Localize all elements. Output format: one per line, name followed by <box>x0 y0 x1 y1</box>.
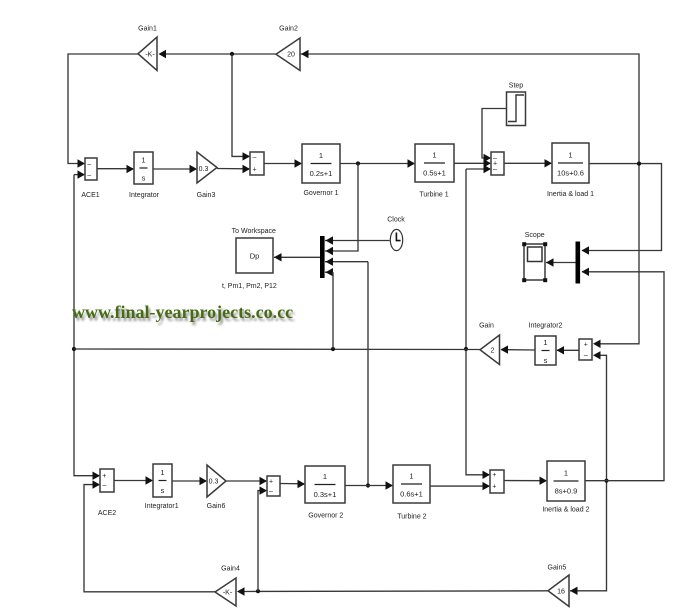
arrowhead into Sum4 minus <box>593 351 601 359</box>
junction Governor 1 output <box>356 161 360 165</box>
svg-text:–: – <box>87 161 91 168</box>
svg-text:1: 1 <box>568 151 572 160</box>
svg-text:ACE1: ACE1 <box>81 192 99 199</box>
scope Scope (selected) <box>522 242 547 282</box>
mux Mux (4 inputs, to workspace) <box>320 236 325 278</box>
wire droop feedback down to Sum2 minus input <box>232 54 249 156</box>
svg-text:Integrator2: Integrator2 <box>529 323 563 330</box>
block Integrator2 (1/s) <box>535 336 556 365</box>
Step <box>507 92 526 126</box>
arrowhead into ACE1 input 1 <box>78 159 86 167</box>
svg-text:Turbine 1: Turbine 1 <box>419 192 448 199</box>
arrowhead into sum + <box>593 340 601 348</box>
svg-text:Integrator1: Integrator1 <box>145 503 179 510</box>
svg-text:8s+0.9: 8s+0.9 <box>555 487 578 496</box>
arrowhead into Mux input 2 <box>326 247 334 255</box>
svg-text:0.6s+1: 0.6s+1 <box>400 490 423 499</box>
wire Sum3 out to Inertia and load 1 <box>504 162 551 164</box>
wire tie-line P12 vertical left x74 ACE1 to ACE2 <box>74 175 99 476</box>
arrowhead into Inertia 2 <box>540 477 548 485</box>
svg-text:-K-: -K- <box>223 590 233 597</box>
sum Sum area2 (droop) <box>267 476 280 496</box>
arrowhead into Sum5 minus <box>260 486 268 494</box>
sum ACE2 <box>100 469 114 492</box>
svg-text:ACE2: ACE2 <box>98 510 116 517</box>
svg-text:–: – <box>87 172 91 179</box>
arrowhead into Sum5 plus <box>260 477 268 485</box>
junction tie-line mid <box>464 347 468 351</box>
arrowhead into Gain3 <box>190 165 198 173</box>
svg-text:1: 1 <box>543 338 547 347</box>
svg-text:–: – <box>584 353 588 360</box>
gain Gain6 (0.3) <box>207 465 226 497</box>
wire Delta-f2 to Sum4 minus and down to Gain5 <box>570 355 607 591</box>
wire Gain output tie-line long horizontal <box>74 348 480 351</box>
svg-text:+: + <box>252 166 256 173</box>
svg-text:Gain5: Gain5 <box>548 565 567 572</box>
arrowhead into Sum3 bottom <box>484 165 492 173</box>
wire Integrator out to Gain3 <box>153 168 196 170</box>
svg-text:Dp: Dp <box>250 252 260 261</box>
arrowhead into Inertia 1 <box>545 159 553 167</box>
svg-text:1: 1 <box>323 472 327 481</box>
wire ACE2 out to Integrator1 <box>114 480 152 482</box>
svg-text:Inertia & load 1: Inertia & load 1 <box>547 191 594 198</box>
svg-text:1: 1 <box>319 151 323 160</box>
wire vertical x368 down to Governor2 output <box>367 262 369 486</box>
wire freq feedback up to Sum5 minus <box>258 491 266 592</box>
svg-text:1: 1 <box>432 151 436 160</box>
svg-text:Turbine 2: Turbine 2 <box>397 514 426 521</box>
svg-text:Gain4: Gain4 <box>221 566 240 573</box>
arrowhead into Gain2 input <box>301 50 309 58</box>
arrowhead into Governor 2 <box>298 480 306 488</box>
svg-text:0.3s+1: 0.3s+1 <box>314 490 337 499</box>
svg-text:+: + <box>584 341 588 348</box>
arrowhead into Gain6 <box>200 477 208 485</box>
svg-text:+: + <box>269 478 273 485</box>
svg-text:+: + <box>492 472 496 479</box>
block Inertia & load 2 <box>547 461 585 501</box>
wire vertical x333 to tie-line <box>332 272 334 349</box>
svg-text:s: s <box>161 486 165 495</box>
arrowhead into Sum2 plus <box>243 165 251 173</box>
arrowhead into Scope mux input 1 <box>582 246 590 254</box>
junction Inertia2 output line <box>604 479 608 483</box>
gain Gain (2, tie-line) <box>480 335 500 365</box>
gain Gain5 (16) <box>548 575 569 607</box>
arrowhead into Integrator <box>127 165 135 173</box>
wire Integrator2 out to Gain <box>501 349 535 351</box>
svg-text:Governor 1: Governor 1 <box>303 190 338 197</box>
wire Sum5 out to Governor 2 <box>280 483 304 485</box>
wire Step output to Sum3 top input <box>482 109 506 159</box>
svg-text:0.5s+1: 0.5s+1 <box>423 169 446 178</box>
svg-text:Gain6: Gain6 <box>207 503 226 510</box>
svg-text:Gain2: Gain2 <box>279 26 298 33</box>
svg-text:Scope: Scope <box>525 232 545 239</box>
arrowhead into Sum2 minus <box>243 152 251 160</box>
svg-text:s: s <box>544 356 548 365</box>
arrowhead into Gain5 input <box>570 587 578 595</box>
To Workspace Dp <box>236 238 273 273</box>
wire Inertia2 out to Scope mux input 2 <box>582 272 664 481</box>
arrowhead into Sum3 middle <box>484 159 492 167</box>
wire Inertia1 out to Scope mux input 1 <box>582 164 662 251</box>
sum Sum area2 load <box>490 470 504 493</box>
junction tie-line at watermark line <box>72 347 76 351</box>
block Governor 1 <box>302 144 340 183</box>
svg-text:–: – <box>102 482 106 489</box>
arrowhead into Gain1 input <box>159 50 167 58</box>
svg-text:Inertia & load 2: Inertia & load 2 <box>542 507 589 514</box>
wire Delta-f1 feedback: Inertia1 out top line to Gain2 and Sum4 + <box>300 54 639 344</box>
arrowhead into ACE2 plus input <box>93 472 101 480</box>
arrowhead into Scope mux input 2 <box>582 268 590 276</box>
junction Inertia1 output <box>637 162 641 166</box>
sum Sum tie-line (inputs on right) <box>579 339 592 360</box>
arrowhead into Mux input 3 <box>326 258 334 266</box>
svg-text:1: 1 <box>564 469 568 478</box>
arrowhead into Sum6 bottom <box>483 482 491 490</box>
block Inertia & load 1 <box>552 143 589 183</box>
svg-text:1: 1 <box>160 468 164 477</box>
svg-text:–: – <box>493 166 497 173</box>
arrowhead into Turbine 2 <box>386 481 394 489</box>
clock Clock <box>390 229 402 250</box>
block Governor 2 <box>305 466 345 503</box>
wire Clock to Mux input 1 <box>325 240 390 242</box>
arrowhead into Mux input 1 <box>326 236 334 244</box>
svg-text:2: 2 <box>491 348 495 355</box>
svg-text:0.3: 0.3 <box>199 166 209 173</box>
junction on Gain2-Gain1 wire <box>230 52 234 56</box>
wire Scope mux output to Scope <box>546 262 576 264</box>
svg-text:20: 20 <box>287 52 295 59</box>
wire Sum4 out to Integrator2 <box>557 349 579 351</box>
junction tie-line to mux tap <box>331 347 335 351</box>
wire Governor 2 out to Turbine 2 <box>345 485 392 487</box>
wire Gain3 out to Sum2 plus <box>217 168 249 170</box>
wire Sum2 out to Governor 1 <box>264 163 301 165</box>
watermark www.final-yearprojects.co.cc <box>72 302 293 323</box>
wire into ACE1 second input <box>74 174 84 176</box>
block Turbine 2 <box>393 465 430 503</box>
svg-text:Governor 2: Governor 2 <box>308 513 343 520</box>
svg-text:To Workspace: To Workspace <box>232 228 276 235</box>
gain Gain1 (-K-) <box>138 37 157 71</box>
wire ACE1 out to Integrator <box>97 168 133 170</box>
svg-text:Gain3: Gain3 <box>197 192 216 199</box>
svg-text:0.3: 0.3 <box>209 479 219 486</box>
block Integrator (1/s) <box>134 152 153 184</box>
arrowhead into Integrator1 <box>146 476 154 484</box>
wire Mux output to To Workspace <box>274 256 320 258</box>
svg-text:1: 1 <box>409 472 413 481</box>
arrowhead into Governor 1 <box>295 159 303 167</box>
wire Gain4 output to ACE2 minus input <box>84 485 215 592</box>
sum Sum area1 load (3 inputs) <box>491 152 504 175</box>
arrowhead into Turbine 1 <box>408 159 416 167</box>
svg-text:1: 1 <box>141 156 145 165</box>
gain Gain4 (-K-) <box>215 578 236 606</box>
arrowhead into Scope <box>546 258 554 266</box>
gain Gain3 (0.3) <box>197 152 217 183</box>
svg-text:Clock: Clock <box>387 217 405 224</box>
wire Mux input 4 from tie-line <box>325 271 333 273</box>
arrowhead into ACE2 minus <box>93 480 101 488</box>
arrowhead into Integrator2 <box>557 346 565 354</box>
wire Turbine 2 out to Sum6 bottom <box>430 485 489 487</box>
arrowhead into ACE1 input 2 <box>78 170 86 178</box>
block Integrator1 (1/s) <box>153 464 172 497</box>
svg-text:–: – <box>269 488 273 495</box>
wire Governor1 tap down to Mux input 2 <box>325 164 358 252</box>
svg-text:16: 16 <box>557 589 565 596</box>
wire Mux input 3 from Governor2 tap <box>325 261 368 263</box>
arrowhead into Gain4 input <box>237 587 245 595</box>
junction Governor 2 output <box>366 483 370 487</box>
wire Gain6 out to Sum5 plus <box>226 480 266 482</box>
junction on Gain5-Gain4 wire <box>256 589 260 593</box>
svg-text:-K-: -K- <box>145 52 155 59</box>
wire tie-line into Sum3 bottom <box>466 168 490 170</box>
svg-text:–: – <box>253 154 257 161</box>
svg-text:t, Pm1, Pm2, P12: t, Pm1, Pm2, P12 <box>222 283 277 290</box>
svg-text:s: s <box>142 174 146 183</box>
gain Gain2 (20) <box>276 38 300 71</box>
wire Governor 1 out to Turbine 1 <box>340 163 414 165</box>
wire tie-line vertical x466 to Sum6 top <box>466 169 489 475</box>
wire Integrator1 out to Gain6 <box>172 480 206 482</box>
arrowhead into Mux input 4 <box>326 268 334 276</box>
arrowhead into Sum3 top <box>484 154 492 162</box>
svg-text:0.2s+1: 0.2s+1 <box>310 169 333 178</box>
mux Mux1 (2 inputs, to scope) <box>576 242 581 284</box>
wire Sum6 out to Inertia and load 2 <box>504 480 546 482</box>
svg-text:Step: Step <box>509 83 524 90</box>
svg-text:Integrator: Integrator <box>129 192 160 199</box>
svg-text:Gain: Gain <box>479 323 494 330</box>
sum ACE1 <box>85 158 97 180</box>
sum Sum area1 (droop) <box>250 152 264 175</box>
arrowhead into To Workspace Dp <box>274 253 282 261</box>
svg-text:+: + <box>492 484 496 491</box>
block Turbine 1 <box>415 144 454 182</box>
wire Gain5 output to Gain4 input <box>243 590 548 593</box>
wire Gain1 output to ACE1 first input <box>68 54 138 164</box>
svg-text:+: + <box>102 473 106 480</box>
wire Gain2 output to Gain1 input <box>164 53 276 55</box>
svg-text:Gain1: Gain1 <box>138 26 157 33</box>
arrowhead into Sum6 top <box>483 471 491 479</box>
arrowhead into Gain input <box>501 345 509 353</box>
wire Turbine 1 out to Sum3 <box>454 162 490 164</box>
svg-text:10s+0.6: 10s+0.6 <box>557 169 584 178</box>
